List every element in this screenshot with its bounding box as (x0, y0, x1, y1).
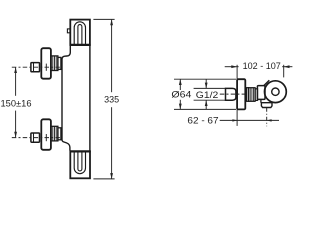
upper knurl (51, 56, 58, 71)
svg-text:Ø64: Ø64 (171, 90, 191, 100)
upper centerline (12, 66, 62, 68)
body right edge (89, 45, 91, 152)
valve body (257, 86, 265, 100)
svg-text:335: 335 (104, 95, 119, 105)
top block (shower hose loop housing) (70, 20, 91, 45)
body left edge with necks (62, 46, 70, 151)
svg-text:150±16: 150±16 (1, 98, 32, 108)
G1/2 extension lines (194, 87, 226, 89)
outlet nozzle (261, 103, 272, 108)
G1/2 thread stub (226, 88, 236, 100)
hose loop (inverted U) in top block (74, 22, 85, 44)
upper wall union button (31, 63, 40, 72)
ring 1 (247, 88, 249, 102)
bottom block (70, 151, 91, 178)
upper ring (58, 57, 61, 69)
dimension 62 - 67 (220, 119, 279, 121)
hose loop (upright U) in bottom block (74, 152, 85, 173)
wall escutcheon flange (237, 79, 245, 109)
notch on left edge of top block (67, 29, 70, 33)
lower wall union button (31, 133, 40, 142)
lower centerline (12, 137, 62, 139)
centerline (220, 93, 247, 95)
right extension line (283, 65, 285, 78)
svg-text:62 - 67: 62 - 67 (187, 116, 218, 126)
nozzle centerline (266, 108, 268, 127)
dimension 335 (93, 19, 114, 179)
knurled section (249, 88, 256, 102)
dimension 102 - 107 (225, 66, 239, 68)
Ø64 dimension arrows (179, 80, 181, 91)
lower ring (58, 128, 61, 140)
svg-text:G1/2: G1/2 (196, 90, 219, 100)
svg-text:102 - 107: 102 - 107 (243, 61, 281, 71)
housing wedge to elbow (264, 80, 270, 85)
lower knob (41, 119, 51, 150)
outlet elbow circle (265, 81, 287, 103)
ring 2 (255, 89, 257, 101)
wall extension line (236, 65, 238, 79)
dimension 150±16 (15, 68, 17, 138)
lower knurl (51, 126, 58, 141)
G1/2 dimension arrows (205, 80, 207, 89)
Ø64 extension lines (174, 78, 236, 80)
upper knob (temperature handle) (41, 48, 51, 78)
